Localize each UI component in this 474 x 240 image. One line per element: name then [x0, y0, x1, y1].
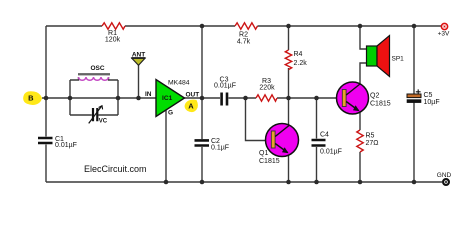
svg-text:2.2k: 2.2k — [294, 60, 308, 67]
wire bottom rail — [46, 181, 442, 183]
resistor R2 — [235, 23, 258, 46]
speaker SP1 — [367, 36, 405, 77]
antenna ANT — [131, 51, 145, 65]
wire main input line — [42, 97, 156, 99]
wire tank loop — [70, 77, 118, 115]
svg-text:G: G — [168, 110, 173, 117]
svg-text:B: B — [28, 94, 34, 103]
wire IC1 ground pin — [165, 110, 167, 182]
resistor R4 — [285, 50, 307, 70]
wire left vertical — [45, 26, 47, 182]
capacitor C5 electrolytic — [407, 89, 440, 106]
svg-text:4.7k: 4.7k — [237, 39, 251, 46]
svg-text:0.01µF: 0.01µF — [320, 149, 342, 156]
wire C2 column — [201, 26, 203, 182]
wire Q1 base drop — [246, 98, 272, 141]
svg-text:ANT: ANT — [132, 51, 145, 58]
svg-text:0.01µF: 0.01µF — [55, 142, 77, 149]
svg-text:IN: IN — [145, 91, 152, 98]
wire C4 column — [316, 98, 318, 182]
svg-text:C4: C4 — [320, 131, 329, 138]
wire C5 column — [413, 26, 415, 182]
terminal GND — [437, 172, 452, 185]
svg-text:OUT: OUT — [186, 91, 200, 98]
resistor R3 — [256, 78, 277, 101]
wire Q1 emitter — [288, 155, 290, 182]
capacitor C4 — [312, 131, 342, 155]
svg-text:Q1: Q1 — [259, 150, 268, 157]
svg-text:C1815: C1815 — [370, 100, 391, 107]
svg-text:+3V: +3V — [438, 31, 450, 38]
node B — [23, 91, 42, 105]
wire top rail — [46, 25, 441, 27]
svg-text:IC1: IC1 — [162, 95, 173, 102]
wire Q2 emitter to R5 — [359, 112, 361, 182]
wire Q2 collector lead — [360, 63, 367, 84]
svg-text:0.1µF: 0.1µF — [211, 145, 229, 152]
wire Q1 collector — [288, 98, 290, 125]
svg-text:MK484: MK484 — [168, 79, 190, 86]
svg-text:Q2: Q2 — [370, 92, 379, 99]
node A — [185, 100, 198, 113]
svg-text:C1815: C1815 — [259, 158, 280, 165]
svg-text:220k: 220k — [259, 85, 275, 92]
terminal +3V — [438, 23, 450, 37]
wire ANT stem — [138, 65, 140, 98]
svg-text:ElecCircuit.com: ElecCircuit.com — [84, 164, 147, 174]
svg-text:R4: R4 — [294, 51, 303, 58]
variable capacitor VC — [89, 106, 108, 125]
wire output line — [185, 97, 343, 99]
op-amp IC1 MK484 — [145, 79, 199, 116]
wire R4 column — [288, 26, 290, 98]
transistor Q2 — [337, 82, 391, 114]
svg-text:SP1: SP1 — [392, 56, 405, 63]
svg-text:R5: R5 — [366, 133, 375, 140]
svg-text:0.01µF: 0.01µF — [214, 83, 236, 90]
capacitor C2 — [195, 138, 230, 152]
svg-text:GND: GND — [437, 172, 452, 179]
resistor R1 — [102, 23, 125, 44]
capacitor C3 — [214, 76, 236, 105]
resistor R5 — [357, 130, 379, 152]
capacitor C1 — [38, 136, 77, 149]
wire speaker top lead — [360, 26, 367, 49]
transistor Q1 — [259, 124, 299, 166]
svg-text:C5: C5 — [424, 92, 433, 99]
svg-text:27Ω: 27Ω — [366, 140, 379, 147]
svg-text:VC: VC — [99, 119, 108, 125]
svg-text:OSC: OSC — [90, 65, 104, 72]
svg-text:A: A — [188, 101, 194, 110]
inductor OSC coil with core — [78, 65, 110, 81]
svg-text:10µF: 10µF — [424, 99, 440, 106]
svg-text:120k: 120k — [105, 36, 121, 43]
